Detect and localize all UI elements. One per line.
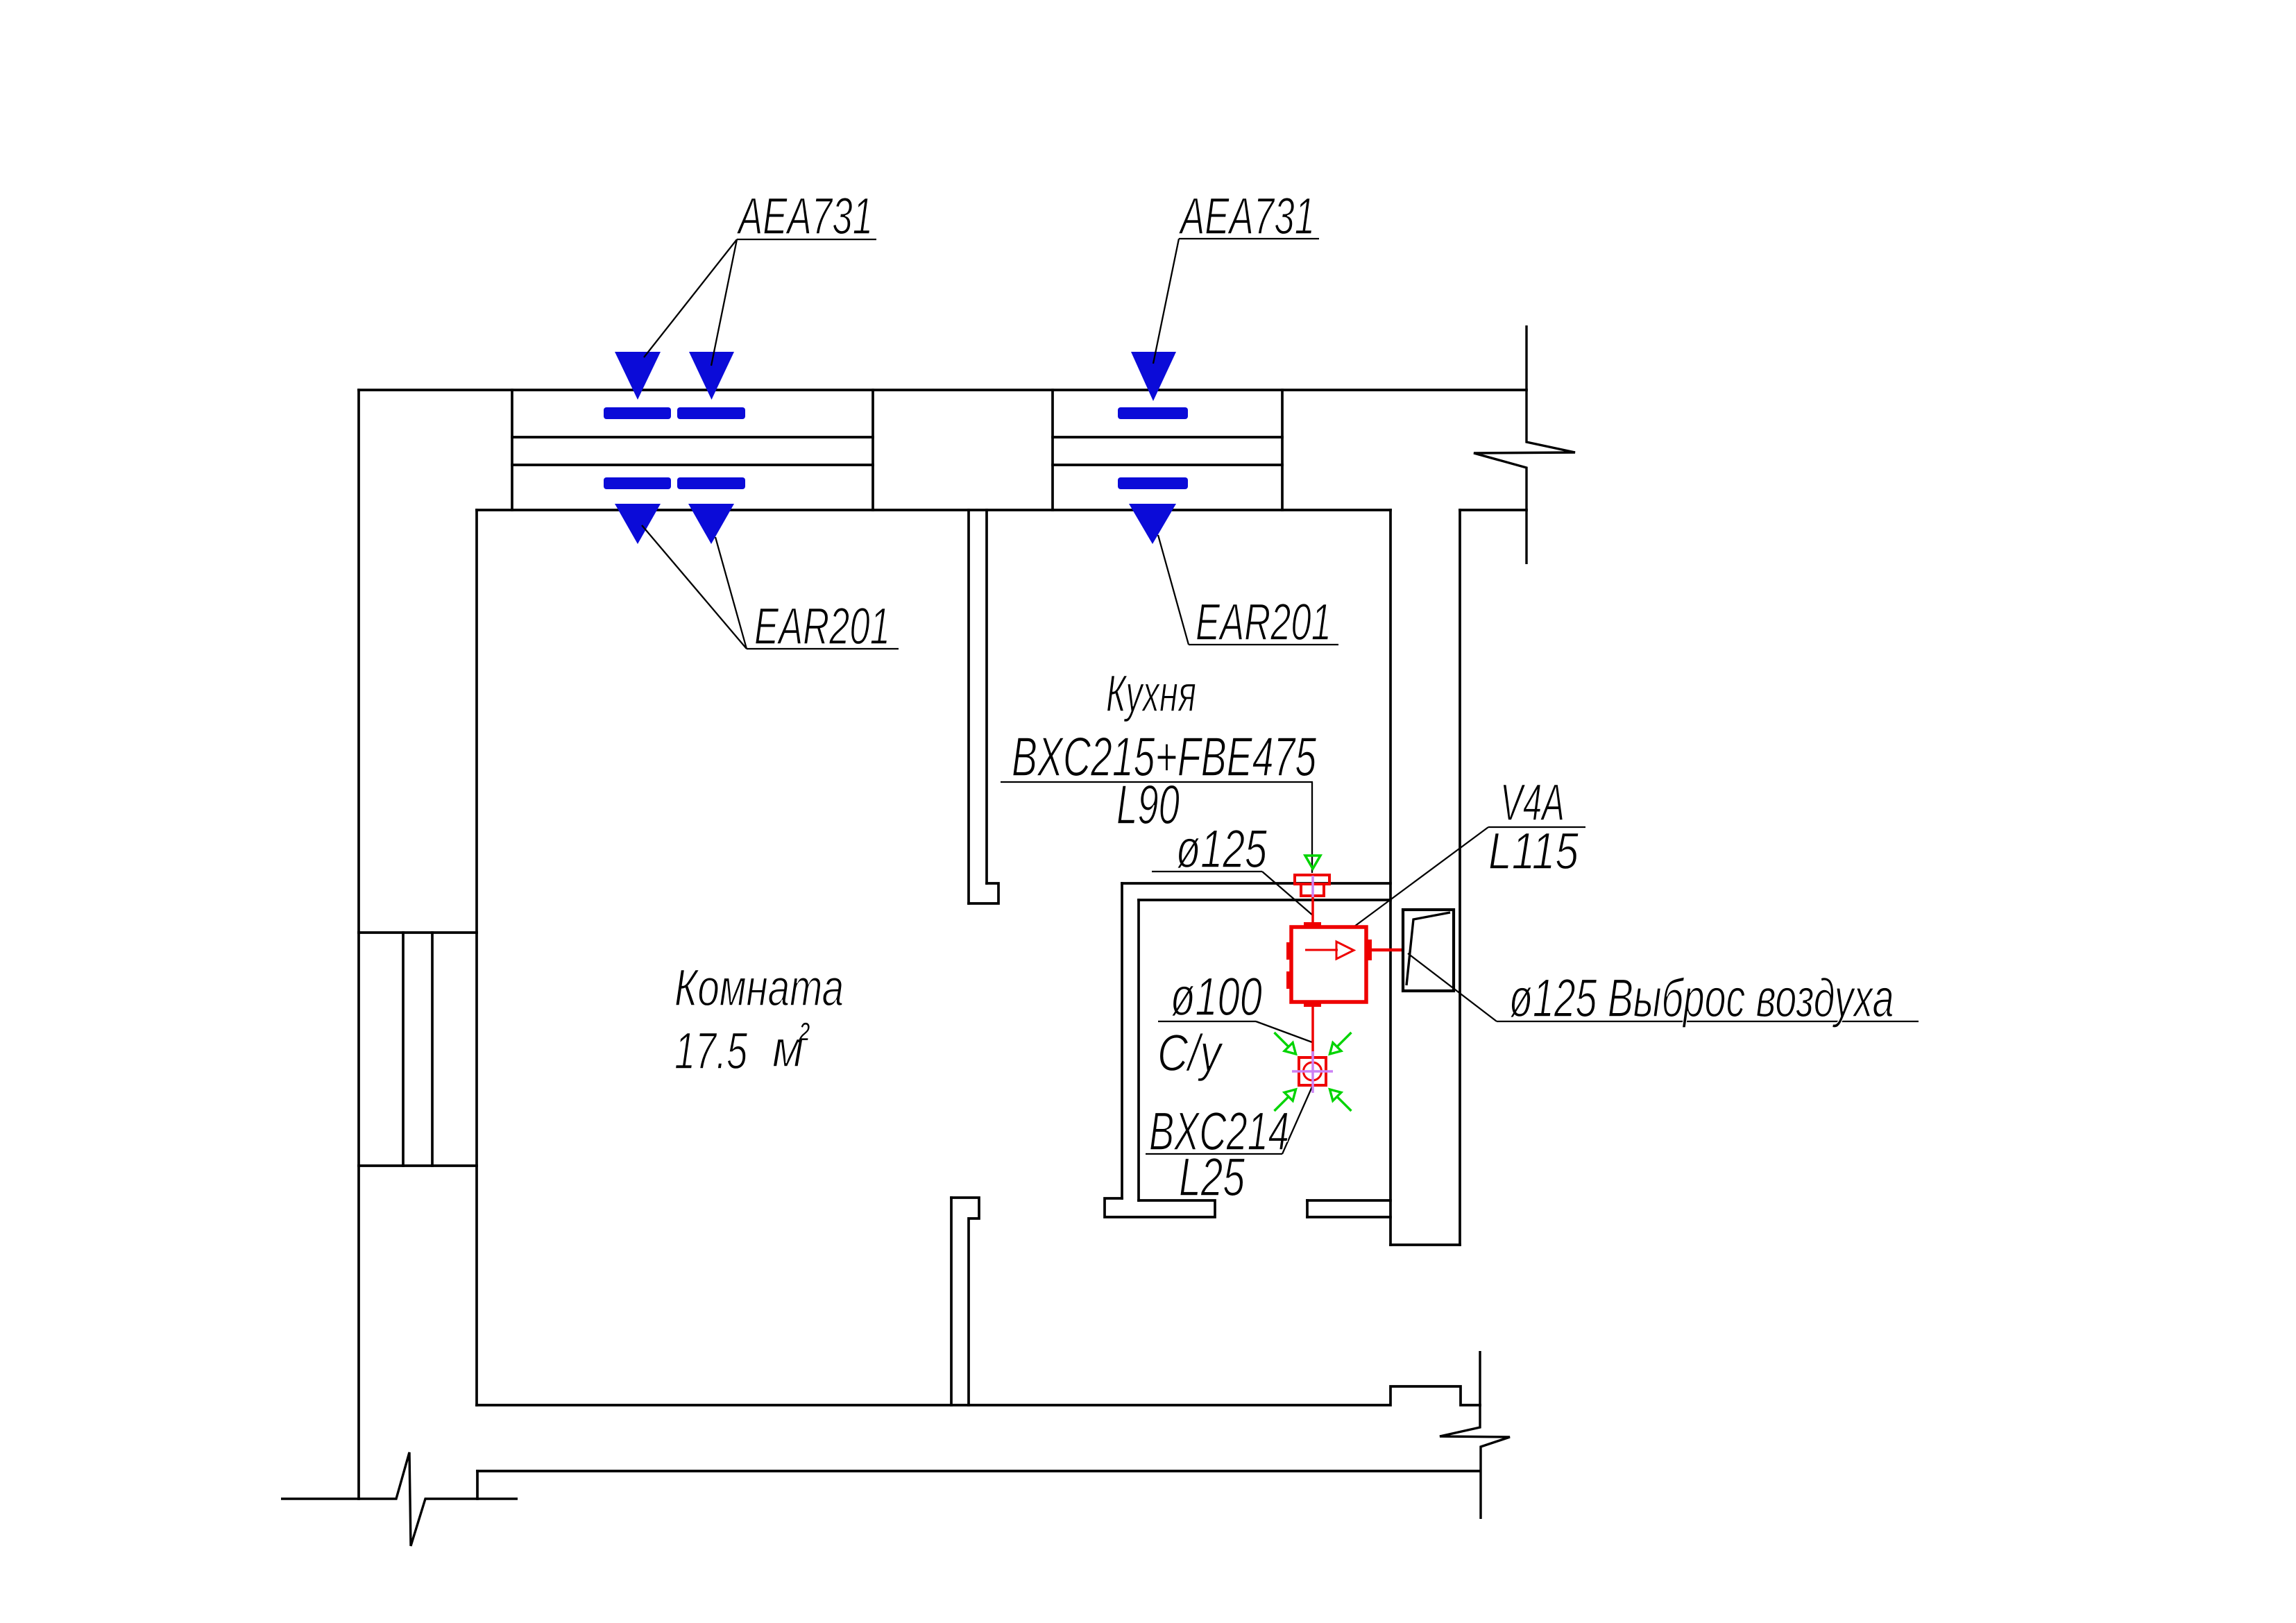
fan top tab	[1304, 922, 1321, 927]
wire left inner wall x=687	[475, 510, 478, 1405]
green arrow lower-right into diffuser	[1330, 1089, 1352, 1111]
window W1 frame line 2	[512, 464, 873, 466]
window W2 left jamb	[1051, 390, 1054, 510]
supply triangle AEA731 W2 (above wall)	[1131, 352, 1176, 401]
label AEA731 #2 underline	[1179, 238, 1319, 239]
partition door jamb step	[969, 883, 998, 903]
window W1 left jamb	[511, 390, 513, 510]
duct down from fan to bathroom diffuser	[1311, 1007, 1314, 1056]
niche vertical 2	[431, 933, 434, 1166]
kitchen right wall / shaft left wall x=2004	[1389, 510, 1392, 1245]
label EAR201 #1 underline	[747, 648, 899, 649]
fan V4A box	[1291, 927, 1366, 1002]
bottom wall bottom face y=2120	[477, 1470, 1480, 1472]
roof cap BXC215+FBE475 upper rect	[1295, 875, 1329, 884]
partition room/kitchen left face	[967, 510, 970, 903]
bottom wall left end vertical	[476, 1471, 479, 1499]
leader AEA731 #1 to right triangle	[711, 239, 737, 366]
leader AEA731 #1 to left triangle	[644, 239, 737, 357]
leader o125 to duct	[1262, 872, 1313, 916]
label o125 underline (kitchen)	[1152, 871, 1262, 872]
green arrow upper-right into diffuser	[1330, 1033, 1352, 1054]
bathroom bottom-right wall segment	[1307, 1199, 1391, 1202]
fan flow arrow shaft	[1305, 949, 1338, 951]
label o100 underline	[1158, 1021, 1256, 1022]
window W2 right jamb	[1281, 390, 1284, 510]
green arrow upper-left into diffuser	[1275, 1033, 1296, 1054]
bottom wall top face with step	[477, 1386, 1480, 1405]
wire left outer wall x=517	[357, 390, 360, 1499]
bathroom bottom-right wall segment lower line	[1307, 1216, 1391, 1218]
fan left tab 2	[1286, 971, 1291, 989]
louver flap line	[1406, 912, 1450, 985]
bathroom bottom-right wall jamb	[1306, 1200, 1309, 1217]
svg-text:2: 2	[799, 1017, 810, 1046]
break symbol bottom-left wall cut y=2160	[281, 1452, 518, 1546]
svg-text:AEA731: AEA731	[1178, 187, 1315, 245]
roof cap BXC215+FBE475 lower rect	[1301, 884, 1324, 896]
supply triangle AEA731 W1 left (above wall)	[615, 352, 661, 400]
leader EAR201 #1 to left triangle	[642, 525, 747, 649]
green supply triangle above roof cap BXC215	[1305, 856, 1320, 869]
svg-text:L115: L115	[1488, 822, 1579, 880]
leader o100 to duct	[1256, 1021, 1312, 1042]
window W2 frame line 1	[1053, 436, 1282, 439]
break symbol bottom-right wall cut x=2133	[1440, 1351, 1510, 1519]
svg-text:С/у: С/у	[1157, 1023, 1224, 1082]
supply triangle AEA731 W1 right (above wall)	[689, 352, 734, 400]
svg-text:ø100: ø100	[1171, 966, 1262, 1027]
wire top inner wall face right part	[1460, 509, 1527, 511]
exhaust triangle EAR201 W2 (below wall)	[1129, 504, 1176, 544]
air slot bar W1 lower-left	[604, 477, 671, 489]
svg-text:Комната: Комната	[674, 958, 844, 1017]
label EAR201 #2 underline	[1189, 644, 1338, 645]
svg-text:ø125 Выброс воздуха: ø125 Выброс воздуха	[1509, 967, 1894, 1028]
louver outer rect	[1403, 910, 1454, 991]
leader EAR201 #1 to right triangle	[715, 537, 747, 649]
diffuser BXC214 square	[1299, 1057, 1326, 1085]
label V4A/L115 underline	[1488, 826, 1585, 828]
svg-text:17.5: 17.5	[674, 1021, 747, 1080]
leader V4A to fan corner	[1352, 827, 1488, 928]
bathroom top wall inner y=1297	[1139, 899, 1391, 901]
exhaust triangle EAR201 W1 right (below wall)	[688, 504, 734, 544]
violet axis through roof cap	[1311, 876, 1314, 897]
fan bottom tab	[1304, 1002, 1321, 1007]
leader BXC214 to diffuser	[1282, 1085, 1313, 1154]
niche horizontal bottom in left wall	[359, 1164, 477, 1167]
svg-text:EAR201: EAR201	[754, 597, 890, 655]
niche vertical 1	[402, 933, 405, 1166]
air slot bar W1 upper-right	[677, 407, 745, 419]
leader BXC215 vertical to roof cap	[1311, 782, 1313, 873]
diffuser BXC214 circle	[1304, 1062, 1322, 1080]
air slot bar W2 lower	[1118, 477, 1188, 489]
fan left tab 1	[1286, 942, 1291, 960]
label AEA731 #1 underline	[737, 239, 876, 240]
leader EAR201 #2 to kitchen triangle	[1158, 535, 1189, 645]
air slot bar W1 lower-right	[677, 477, 745, 489]
svg-text:Кухня: Кухня	[1106, 664, 1196, 722]
bathroom left wall outer x=1617	[1121, 883, 1123, 1198]
red connector fan to louver	[1372, 949, 1404, 952]
bathroom left wall inner x=1641	[1137, 900, 1140, 1200]
window W2 frame line 2	[1053, 464, 1282, 466]
wire top outer wall face y=562	[359, 389, 1527, 391]
svg-text:EAR201: EAR201	[1196, 593, 1332, 651]
duct riser above fan	[1311, 897, 1314, 927]
fan right tab	[1366, 940, 1372, 960]
air slot bar W2 upper	[1118, 407, 1188, 419]
window W1 frame line 1	[512, 436, 873, 439]
green arrow lower-left into diffuser	[1275, 1089, 1296, 1111]
leader o125 Vybros to louver	[1408, 953, 1497, 1021]
bathroom bottom-left wall segment with end caps	[1105, 1198, 1215, 1217]
svg-text:AEA731: AEA731	[736, 187, 873, 245]
partition room/kitchen right face	[985, 510, 988, 883]
air slot bar W1 upper-left	[604, 407, 671, 419]
wire top inner wall face (sill) left part	[477, 509, 1391, 511]
partition lower stub outer face	[950, 1198, 953, 1405]
shaft right wall x=2104	[1459, 510, 1461, 1245]
fan flow arrow head	[1336, 942, 1354, 959]
window W1 right jamb	[871, 390, 874, 510]
exhaust triangle EAR201 W1 left (below wall)	[615, 504, 661, 544]
violet axis cross vertical	[1311, 1051, 1314, 1093]
partition lower stub cap	[951, 1198, 979, 1405]
leader AEA731 #2 to kitchen triangle	[1153, 239, 1179, 364]
violet axis cross horizontal	[1292, 1070, 1333, 1073]
shaft bottom cap	[1391, 1243, 1460, 1246]
bathroom top wall outer y=1273	[1122, 882, 1391, 885]
niche horizontal top in left wall	[359, 931, 477, 934]
svg-text:ø125: ø125	[1176, 818, 1267, 879]
label o125 Vybros underline	[1497, 1021, 1919, 1022]
break symbol top-right vertical wall cut x=2200	[1474, 325, 1575, 564]
svg-text:L90: L90	[1116, 774, 1180, 835]
label BXC215+FBE475 underline	[1001, 781, 1313, 783]
label BXC214 underline	[1146, 1153, 1282, 1155]
svg-text:L25: L25	[1179, 1146, 1245, 1207]
